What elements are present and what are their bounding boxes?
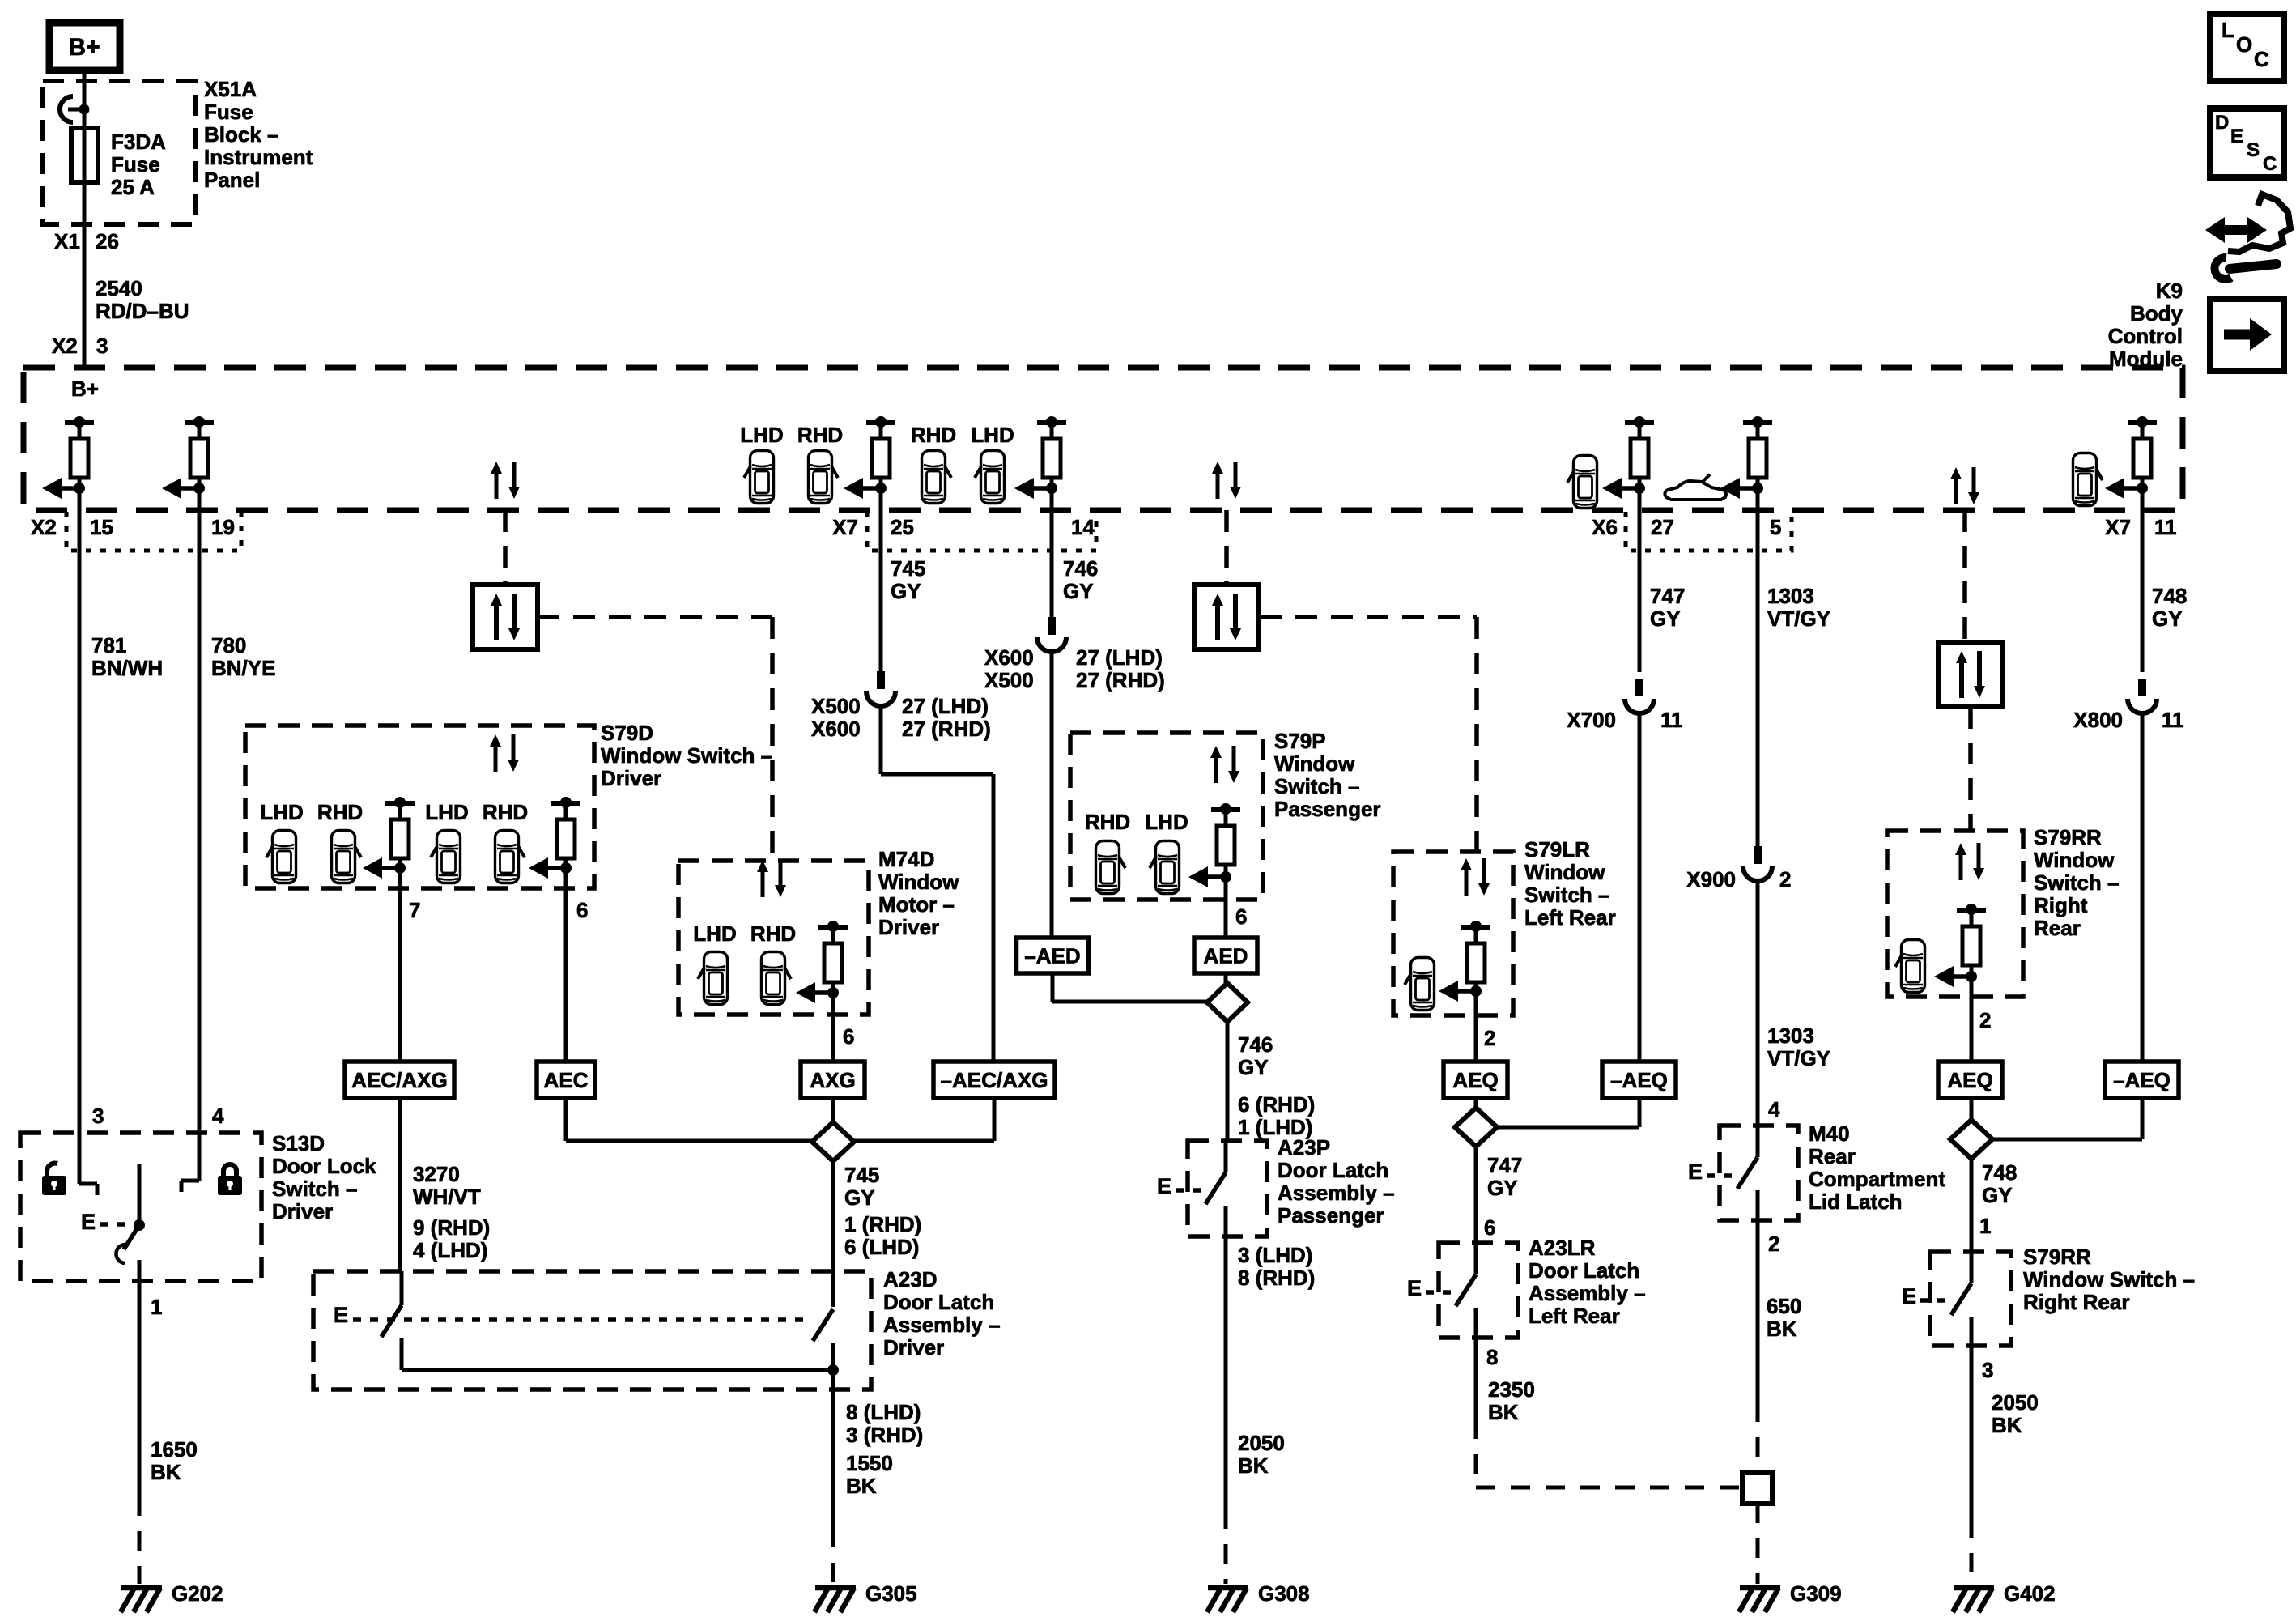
svg-text:A23LR: A23LR [1529,1236,1596,1260]
svg-text:K9: K9 [2156,279,2183,303]
svg-text:S79D: S79D [601,721,653,745]
svg-text:AXG: AXG [810,1068,855,1092]
svg-text:LHD: LHD [971,423,1014,447]
svg-text:19: 19 [211,515,235,539]
svg-text:RHD: RHD [750,921,796,946]
svg-text:780: 780 [211,633,246,657]
svg-text:X7: X7 [832,515,858,539]
svg-text:–AEQ: –AEQ [1610,1068,1668,1092]
svg-text:Driver: Driver [272,1199,333,1223]
svg-text:M40: M40 [1809,1121,1850,1146]
svg-text:Instrument: Instrument [204,145,313,169]
svg-text:LHD: LHD [260,800,303,824]
svg-text:3: 3 [92,1104,104,1128]
svg-text:X6: X6 [1592,515,1618,539]
svg-text:G202: G202 [172,1581,223,1606]
svg-text:X800: X800 [2073,708,2123,732]
svg-text:9 (RHD): 9 (RHD) [413,1215,490,1240]
svg-text:Switch –: Switch – [1274,774,1359,798]
svg-text:Door Lock: Door Lock [272,1154,376,1178]
svg-text:Control: Control [2108,324,2183,348]
svg-text:1550: 1550 [846,1451,893,1475]
svg-text:Switch –: Switch – [272,1177,357,1201]
svg-text:B+: B+ [68,34,100,61]
svg-text:AEQ: AEQ [1947,1068,1992,1092]
svg-text:2050: 2050 [1992,1390,2039,1415]
svg-text:L: L [2222,18,2234,42]
svg-text:RHD: RHD [317,800,363,824]
svg-text:1650: 1650 [151,1437,198,1462]
svg-text:BN/YE: BN/YE [211,656,275,680]
svg-text:746: 746 [1238,1032,1273,1057]
svg-text:AED: AED [1204,944,1248,968]
svg-text:Motor –: Motor – [878,892,955,917]
svg-text:VT/GY: VT/GY [1767,606,1830,631]
svg-text:RD/D–BU: RD/D–BU [96,299,189,323]
svg-text:–AEC/AXG: –AEC/AXG [941,1068,1048,1092]
svg-text:LHD: LHD [425,800,468,824]
svg-text:14: 14 [1071,515,1095,539]
svg-text:Door Latch: Door Latch [1278,1158,1388,1182]
svg-text:Left Rear: Left Rear [1524,905,1616,930]
svg-text:WH/VT: WH/VT [413,1185,481,1209]
svg-text:G402: G402 [2004,1581,2056,1606]
svg-text:6 (RHD): 6 (RHD) [1238,1092,1315,1117]
svg-text:LHD: LHD [740,423,783,447]
svg-text:2: 2 [1979,1008,1991,1032]
svg-text:E: E [2230,126,2243,147]
svg-text:Switch –: Switch – [2034,870,2119,895]
svg-text:747: 747 [1650,584,1685,608]
svg-text:E: E [334,1303,348,1327]
svg-text:1: 1 [151,1295,162,1319]
svg-text:GY: GY [844,1185,875,1210]
svg-text:27 (RHD): 27 (RHD) [1076,668,1165,692]
svg-text:GY: GY [1982,1183,2013,1207]
svg-text:745: 745 [891,556,925,581]
svg-text:Switch –: Switch – [1524,883,1609,907]
svg-text:Window Switch –: Window Switch – [2023,1267,2195,1291]
svg-text:3270: 3270 [413,1162,460,1186]
svg-text:X700: X700 [1567,708,1616,732]
svg-text:8 (LHD): 8 (LHD) [846,1400,921,1424]
svg-text:X900: X900 [1686,867,1736,891]
svg-text:Fuse: Fuse [111,152,160,177]
svg-text:27 (LHD): 27 (LHD) [1076,645,1163,670]
svg-text:X2: X2 [52,334,78,358]
svg-text:Left Rear: Left Rear [1529,1304,1620,1328]
svg-text:Lid Latch: Lid Latch [1809,1189,1903,1214]
svg-text:G309: G309 [1790,1581,1842,1606]
svg-text:S: S [2247,139,2260,161]
svg-text:2350: 2350 [1488,1377,1535,1402]
svg-text:6 (LHD): 6 (LHD) [844,1235,919,1259]
svg-text:Right Rear: Right Rear [2023,1290,2129,1314]
svg-text:27: 27 [1651,515,1674,539]
svg-text:1 (RHD): 1 (RHD) [844,1212,921,1236]
svg-text:4 (LHD): 4 (LHD) [413,1238,487,1262]
svg-text:Window: Window [2034,848,2115,872]
svg-text:7: 7 [409,898,420,922]
svg-text:BK: BK [151,1460,181,1484]
svg-text:2: 2 [1484,1026,1495,1050]
svg-text:25 A: 25 A [111,175,155,199]
svg-text:–AED: –AED [1024,944,1080,968]
svg-text:748: 748 [2152,584,2187,608]
svg-text:11: 11 [1660,708,1683,732]
svg-text:11: 11 [2162,708,2184,732]
svg-text:4: 4 [212,1104,224,1128]
svg-text:Door Latch: Door Latch [1529,1258,1639,1283]
svg-text:GY: GY [1238,1055,1269,1079]
svg-text:A23D: A23D [883,1267,937,1291]
svg-text:Fuse: Fuse [204,100,253,124]
svg-text:748: 748 [1982,1160,2017,1185]
svg-text:S79RR: S79RR [2034,825,2102,849]
svg-text:Assembly –: Assembly – [1278,1181,1395,1205]
svg-text:Driver: Driver [601,766,661,790]
svg-text:C: C [2263,153,2277,175]
svg-text:BK: BK [1238,1453,1269,1478]
svg-text:RHD: RHD [483,800,528,824]
svg-text:1: 1 [1979,1214,1991,1238]
svg-text:E: E [1157,1174,1171,1198]
svg-text:–AEQ: –AEQ [2113,1068,2171,1092]
svg-text:Right: Right [2034,893,2088,917]
svg-text:Module: Module [2109,347,2183,371]
svg-text:15: 15 [90,515,113,539]
svg-text:GY: GY [2152,606,2183,631]
svg-text:BK: BK [1767,1317,1797,1341]
svg-text:C: C [2254,47,2269,71]
svg-text:Driver: Driver [878,915,939,939]
svg-text:650: 650 [1767,1294,1801,1318]
svg-text:S79LR: S79LR [1524,837,1590,862]
svg-text:F3DA: F3DA [111,130,166,154]
svg-text:747: 747 [1487,1153,1522,1177]
svg-text:E: E [1688,1160,1703,1184]
svg-text:6: 6 [1484,1215,1495,1240]
svg-text:6: 6 [576,898,588,922]
svg-text:GY: GY [1650,606,1681,631]
svg-text:S13D: S13D [272,1131,325,1155]
svg-text:Panel: Panel [204,168,260,192]
svg-text:D: D [2215,112,2229,134]
svg-text:AEQ: AEQ [1452,1068,1498,1092]
svg-text:E: E [81,1210,96,1234]
svg-text:BK: BK [1992,1413,2022,1437]
svg-text:27 (LHD): 27 (LHD) [902,694,989,718]
svg-text:Body: Body [2130,301,2183,326]
svg-text:27 (RHD): 27 (RHD) [902,717,991,741]
svg-text:Window: Window [1524,860,1605,884]
svg-text:Rear: Rear [2034,916,2081,940]
svg-text:2: 2 [1779,867,1791,891]
svg-text:S79P: S79P [1274,729,1326,753]
svg-text:745: 745 [844,1163,879,1187]
svg-text:AEC/AXG: AEC/AXG [351,1068,447,1092]
svg-text:Window: Window [878,870,959,894]
svg-text:Assembly –: Assembly – [883,1313,1001,1337]
svg-text:RHD: RHD [797,423,843,447]
svg-text:3 (LHD): 3 (LHD) [1238,1243,1312,1267]
svg-text:RHD: RHD [911,423,956,447]
svg-text:X500: X500 [811,694,861,718]
svg-text:Door Latch: Door Latch [883,1290,994,1314]
svg-text:A23P: A23P [1278,1135,1330,1160]
svg-text:Driver: Driver [883,1335,944,1360]
svg-text:E: E [1902,1284,1916,1308]
svg-text:746: 746 [1063,556,1098,581]
svg-text:AEC: AEC [544,1068,589,1092]
svg-text:X1: X1 [54,229,80,253]
svg-text:2050: 2050 [1238,1431,1285,1455]
svg-text:X2: X2 [31,515,57,539]
svg-text:Window Switch –: Window Switch – [601,743,772,768]
svg-text:B+: B+ [71,377,99,401]
svg-text:5: 5 [1770,515,1781,539]
svg-text:S79RR: S79RR [2023,1245,2091,1269]
svg-text:1303: 1303 [1767,1023,1814,1048]
svg-text:25: 25 [891,515,914,539]
svg-text:GY: GY [1063,579,1094,603]
svg-text:Rear: Rear [1809,1144,1856,1168]
svg-text:RHD: RHD [1085,810,1130,834]
svg-text:2540: 2540 [96,276,142,300]
svg-text:G305: G305 [865,1581,917,1606]
svg-text:8: 8 [1486,1345,1498,1369]
svg-text:G308: G308 [1258,1581,1310,1606]
svg-text:Passenger: Passenger [1278,1203,1384,1228]
svg-text:2: 2 [1768,1232,1779,1256]
svg-text:X500: X500 [984,668,1034,692]
svg-text:8 (RHD): 8 (RHD) [1238,1266,1315,1290]
svg-text:6: 6 [843,1024,854,1049]
svg-text:26: 26 [96,229,119,253]
svg-text:VT/GY: VT/GY [1767,1046,1830,1070]
svg-text:O: O [2236,32,2252,57]
svg-text:6: 6 [1235,904,1247,929]
svg-text:GY: GY [1487,1176,1518,1200]
svg-text:Block –: Block – [204,122,279,147]
svg-text:LHD: LHD [1145,810,1188,834]
svg-text:X600: X600 [984,645,1034,670]
svg-text:E: E [1407,1276,1422,1300]
svg-text:X51A: X51A [204,77,257,101]
svg-text:GY: GY [891,579,921,603]
svg-text:Window: Window [1274,751,1355,776]
svg-text:1303: 1303 [1767,584,1814,608]
svg-text:LHD: LHD [693,921,736,946]
svg-text:Assembly –: Assembly – [1529,1281,1646,1305]
svg-text:X7: X7 [2105,515,2131,539]
svg-text:Compartment: Compartment [1809,1167,1945,1191]
svg-text:3 (RHD): 3 (RHD) [846,1423,923,1447]
svg-text:BK: BK [846,1474,877,1498]
svg-text:BN/WH: BN/WH [91,656,163,680]
svg-text:X600: X600 [811,717,861,741]
svg-text:4: 4 [1768,1097,1780,1121]
svg-text:11: 11 [2154,515,2177,539]
svg-text:Passenger: Passenger [1274,797,1381,821]
svg-text:3: 3 [96,334,108,358]
svg-text:3: 3 [1982,1358,1993,1382]
svg-text:BK: BK [1488,1400,1519,1424]
svg-text:781: 781 [91,633,126,657]
svg-text:M74D: M74D [878,847,934,871]
